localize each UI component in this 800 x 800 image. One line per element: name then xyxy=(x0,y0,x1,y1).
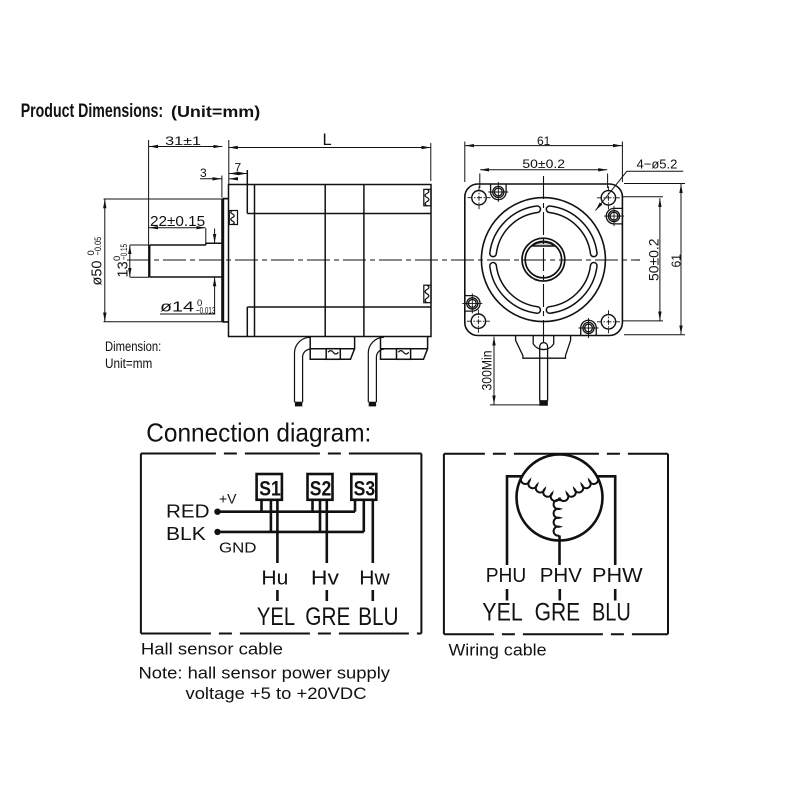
dim 31+-1 xyxy=(148,140,150,277)
connector housing left xyxy=(310,337,354,360)
screw boss left xyxy=(462,293,482,313)
flange mounting holes xyxy=(467,186,620,333)
clip front left xyxy=(229,211,237,225)
dim 50 top xyxy=(479,174,481,189)
svg-text:Hv: Hv xyxy=(311,567,340,590)
PHW stub dash xyxy=(614,589,617,601)
dim o14 arrows xyxy=(214,229,216,244)
+V node dot xyxy=(214,509,220,515)
Hv stub xyxy=(325,590,328,601)
shaft keyway flat xyxy=(150,244,206,246)
svg-text:300Min: 300Min xyxy=(480,351,495,391)
arc slots xyxy=(490,206,597,313)
cable xyxy=(540,343,548,401)
svg-text:(Unit=mm): (Unit=mm) xyxy=(171,104,260,121)
sensor S2 box xyxy=(308,474,333,500)
motor body outline xyxy=(229,185,432,337)
svg-text:Hall sensor cable: Hall sensor cable xyxy=(141,640,283,659)
svg-text:50±0.2: 50±0.2 xyxy=(647,239,662,282)
shaft bottom edge xyxy=(150,276,223,278)
svg-text:ø14: ø14 xyxy=(160,300,194,316)
screw boss right xyxy=(604,206,624,226)
front plate bottom edge xyxy=(223,321,229,323)
svg-text:L: L xyxy=(323,131,332,149)
svg-text:Connection diagram:: Connection diagram: xyxy=(146,418,371,448)
hall diagram labels xyxy=(166,477,399,631)
svg-text:Wiring cable: Wiring cable xyxy=(449,641,547,660)
svg-text:GRE: GRE xyxy=(535,599,581,627)
title: Product Dimensions xyxy=(21,101,261,122)
wire right xyxy=(368,337,384,406)
svg-text:−0.05: −0.05 xyxy=(93,237,104,256)
bolt hole TR xyxy=(601,191,615,205)
svg-text:61: 61 xyxy=(668,254,683,268)
connector below flange xyxy=(516,336,571,406)
flange vertical centerline xyxy=(543,176,545,346)
shaft circle xyxy=(525,241,561,277)
dim 13 xyxy=(130,244,150,246)
+V wire xyxy=(218,510,356,513)
phase wire PHW xyxy=(597,476,615,565)
screw boss top xyxy=(488,182,508,202)
clip right top xyxy=(424,189,431,206)
body step line x=247.3 bottom xyxy=(246,307,248,337)
S2 pins xyxy=(311,500,314,512)
body section line x=254.5 xyxy=(254,185,256,337)
svg-text:−0.013: −0.013 xyxy=(196,305,215,316)
shaft left end cap xyxy=(149,245,151,277)
flange screw bosses xyxy=(462,182,624,338)
svg-text:31±1: 31±1 xyxy=(165,134,201,148)
svg-text:Hw: Hw xyxy=(359,567,390,590)
svg-text:50±0.2: 50±0.2 xyxy=(522,157,565,171)
bolt hole BR xyxy=(601,315,615,329)
center hole circle xyxy=(522,238,565,281)
motor winding circle xyxy=(507,455,615,601)
screw boss bottom xyxy=(579,318,599,338)
body inner bottom line xyxy=(247,306,431,308)
PHV stub dash xyxy=(558,589,561,601)
clip right bottom xyxy=(424,285,431,303)
svg-text:ø50: ø50 xyxy=(89,261,105,286)
leader 4-o5.2 xyxy=(627,170,683,172)
centerline main xyxy=(127,259,640,261)
bolt hole TL xyxy=(472,191,486,205)
svg-text:7: 7 xyxy=(235,161,242,175)
svg-text:−0.15: −0.15 xyxy=(119,244,130,260)
svg-text:PHV: PHV xyxy=(540,564,583,587)
front plate thick face xyxy=(221,199,224,323)
body inner top line xyxy=(247,213,431,215)
svg-text:61: 61 xyxy=(537,134,551,148)
svg-text:Unit=mm: Unit=mm xyxy=(105,356,152,371)
dim L xyxy=(430,143,432,181)
svg-text:RED: RED xyxy=(166,501,210,521)
sensor S3 box xyxy=(351,474,376,500)
front plate top edge xyxy=(223,198,229,200)
cable gland arc xyxy=(533,336,554,350)
svg-text:Note: hall sensor power supply: Note: hall sensor power supply xyxy=(139,664,391,683)
phase wire PHU xyxy=(507,476,522,565)
svg-text:+V: +V xyxy=(219,491,237,507)
Hw stub xyxy=(371,590,374,601)
winding coil right xyxy=(559,476,598,501)
svg-text:4−ø5.2: 4−ø5.2 xyxy=(637,156,678,171)
svg-text:YEL: YEL xyxy=(257,603,295,631)
winding coil bottom xyxy=(554,498,560,536)
cable tip xyxy=(540,401,547,405)
svg-text:voltage +5 to +20VDC: voltage +5 to +20VDC xyxy=(186,684,367,703)
svg-text:YEL: YEL xyxy=(482,599,523,627)
keyway flat chord xyxy=(532,242,555,246)
S3 pins xyxy=(354,500,357,512)
text o50 rotated xyxy=(86,237,105,286)
sensor S1 box xyxy=(257,474,282,500)
svg-text:S3: S3 xyxy=(354,477,376,500)
svg-text:GRE: GRE xyxy=(305,603,350,631)
dim 22+-0.15 xyxy=(205,228,207,244)
dim o50 xyxy=(104,198,230,200)
text 13 rotated xyxy=(112,244,132,278)
flange square xyxy=(465,184,623,336)
svg-text:BLU: BLU xyxy=(592,599,631,627)
dim 61 right xyxy=(624,183,685,185)
svg-text:BLK: BLK xyxy=(166,524,206,544)
hall sensor box xyxy=(141,454,422,634)
body section line x=325.2 xyxy=(324,185,326,337)
phase wire PHV xyxy=(558,536,561,566)
svg-text:13: 13 xyxy=(115,261,131,277)
dim 300Min xyxy=(490,404,547,406)
flange dimension texts xyxy=(480,134,684,391)
dim 61 top xyxy=(464,142,466,183)
wiring cable box xyxy=(444,454,668,635)
body section line x=363.9 xyxy=(363,185,365,337)
wiring labels xyxy=(482,564,643,627)
body step line x=247.3 top xyxy=(246,170,248,214)
svg-text:3: 3 xyxy=(200,166,207,180)
svg-text:S1: S1 xyxy=(259,477,281,500)
svg-text:22±0.15: 22±0.15 xyxy=(150,214,205,230)
GND wire xyxy=(218,531,364,534)
S1 pins xyxy=(260,500,263,512)
PHU stub dash xyxy=(506,589,509,601)
GND node dot xyxy=(214,529,220,535)
Hu stub xyxy=(276,590,279,601)
dim 50 right xyxy=(623,196,663,198)
outer pilot circle xyxy=(481,198,605,322)
svg-text:PHW: PHW xyxy=(592,564,643,587)
winding coil left xyxy=(521,476,560,501)
bolt hole BL xyxy=(471,314,485,328)
dim 7 xyxy=(228,140,230,184)
svg-text:Product Dimensions:: Product Dimensions: xyxy=(21,101,163,122)
side view dimension texts xyxy=(86,131,331,371)
svg-text:S2: S2 xyxy=(310,477,332,500)
svg-text:PHU: PHU xyxy=(486,564,527,587)
wire left xyxy=(295,337,311,406)
connector housing right xyxy=(381,337,428,360)
svg-text:BLU: BLU xyxy=(358,603,399,631)
svg-text:Dimension:: Dimension: xyxy=(105,339,161,354)
svg-text:GND: GND xyxy=(219,541,257,557)
dim 3 xyxy=(221,176,223,198)
hall sensors S1 S2 S3 xyxy=(218,474,377,601)
svg-text:Hu: Hu xyxy=(261,567,288,590)
shaft full top edge xyxy=(206,242,223,244)
o14 leader underline xyxy=(160,313,215,315)
